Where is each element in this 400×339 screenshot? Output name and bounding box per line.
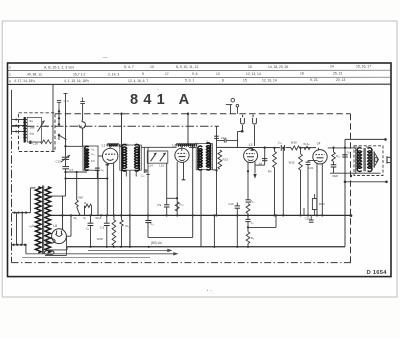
svg-text:L6: L6	[259, 162, 263, 166]
svg-text:24: 24	[330, 65, 334, 69]
svg-text:C21: C21	[308, 166, 314, 170]
capacitor C3 branch (x=90.5)	[86, 215, 93, 246]
svg-text:5ac: 5ac	[30, 132, 35, 136]
header separator line 1	[8, 69, 392, 71]
IF2 secondary winding	[206, 143, 210, 170]
svg-text:C₆: C₆	[101, 168, 104, 172]
resistor R13	[218, 150, 228, 169]
IF1 bottom stubs	[126, 170, 136, 176]
stub x=304	[303, 208, 305, 215]
IF2 primary winding	[198, 146, 202, 170]
valve L2 (IF tube)	[172, 144, 189, 163]
wave-change switch contacts	[58, 108, 67, 140]
IF2 box bottom link to x=216.5	[213, 169, 218, 171]
svg-text:R₀₁: R₀₁	[180, 203, 184, 207]
svg-text:8, 9, 10, 11, 12: 8, 9, 10, 11, 12	[176, 65, 198, 69]
capacitor on HT rail C30	[342, 146, 350, 157]
mains terminal strip	[12, 244, 27, 246]
wire y=173.2	[330, 172, 381, 174]
aerial panel dashed box	[19, 113, 56, 152]
mains wires	[17, 213, 26, 254]
svg-text:12, 4, 16, 6, 7: 12, 4, 16, 6, 7	[128, 79, 148, 83]
valve L2 legs	[177, 162, 185, 216]
capacitor C6	[95, 168, 104, 179]
svg-text:(50) c/s: (50) c/s	[151, 241, 162, 245]
scan smudges	[103, 58, 212, 292]
grid wire L5 to valve	[98, 155, 103, 157]
output transformer core	[364, 148, 365, 171]
power transformer primary lead	[30, 188, 35, 213]
svg-text:W16: W16	[95, 216, 101, 220]
svg-text:D 1654: D 1654	[367, 270, 388, 276]
resistor W18 (series zigzag)	[291, 141, 300, 150]
wire x=283	[282, 147, 284, 216]
branch x=214.4	[213, 215, 215, 246]
IF1 top lead (x=121.5)	[120, 113, 123, 216]
wire L5 box to HT bus	[97, 170, 99, 215]
rectifier valve L8	[52, 224, 67, 244]
capacitor C15a (series)	[278, 140, 285, 150]
mains frequency arrow 2	[26, 252, 179, 255]
resistor W16 (x=113.9)	[95, 215, 115, 245]
svg-text:R: R	[9, 79, 11, 83]
capacitor C16 branch (x=237.3)	[228, 202, 240, 247]
svg-text:18: 18	[300, 72, 304, 76]
bus feed junction dot	[70, 214, 72, 216]
svg-text:W₁: W₁	[74, 216, 78, 220]
rectifier heater winding 2	[44, 250, 54, 255]
svg-text:C₃: C₃	[86, 227, 89, 231]
power transformer core	[43, 186, 44, 255]
svg-text:10: 10	[216, 72, 220, 76]
capacitor C4	[145, 215, 154, 237]
svg-text:R₁: R₁	[83, 216, 86, 220]
valve L3 (detector)	[244, 143, 258, 163]
valve L4 legs	[317, 164, 322, 216]
svg-text:1e: 1e	[32, 223, 36, 227]
header separator line 2	[8, 76, 392, 78]
svg-text:5: 5	[142, 72, 144, 76]
svg-text:1/3: 1/3	[91, 159, 95, 163]
rectifier output wire	[66, 215, 71, 236]
svg-text:49, 84, 11: 49, 84, 11	[27, 73, 42, 77]
resistor R10 (L2 cathode)	[175, 202, 183, 211]
svg-text:4, 17, 14, 18¼: 4, 17, 14, 18¼	[14, 79, 35, 83]
svg-text:W15: W15	[289, 160, 295, 164]
svg-text:15,7 1-2: 15,7 1-2	[73, 72, 86, 76]
capacitor C7	[62, 167, 73, 173]
capacitor C18	[29, 141, 38, 146]
svg-text:12, 13, 14: 12, 13, 14	[246, 72, 261, 76]
long vertical with C17 (x=216.5)	[214, 126, 226, 215]
trimmer box C14/C15a	[147, 151, 168, 167]
svg-text:15, 16, 17: 15, 16, 17	[356, 65, 371, 69]
svg-text:S8: S8	[366, 145, 370, 149]
IF transformer 1 box	[120, 145, 142, 170]
svg-text:S: S	[9, 66, 11, 70]
svg-text:R₁₁: R₁₁	[336, 154, 340, 158]
mains aerial coupling coil (pigtail)	[79, 118, 85, 128]
grid leak hook with C	[255, 146, 267, 165]
pick-up wiring	[238, 130, 244, 148]
svg-text:¼ ¼: ¼ ¼	[64, 99, 70, 103]
detector load chain below bus (x=248)	[245, 215, 254, 246]
grid coil L2 (horizontal squiggle)	[176, 144, 197, 147]
resistor W18a branch (x=121.5)	[97, 215, 123, 246]
resistor R2 (pi over bus)	[84, 201, 92, 215]
loudspeaker	[374, 152, 378, 168]
power transformer primary winding	[35, 187, 41, 253]
capacitor C13 and resistor R15 (L3 cathode chain)	[245, 199, 254, 215]
anode wire to output transformer	[328, 148, 356, 173]
grid stopper T.A.	[303, 142, 310, 150]
IF1 bottom lead (x=129.9)	[129, 170, 131, 247]
earth bus (y=246.8)	[67, 246, 345, 248]
bus junction dots	[89, 214, 323, 216]
valve L3 grid lead	[251, 147, 254, 150]
svg-text:C15: C15	[56, 160, 62, 164]
resistor-capacitor tone branch W20/C11	[331, 146, 340, 178]
svg-text:15: 15	[248, 65, 252, 69]
trimmer box left lead to bus	[146, 147, 150, 215]
svg-text:W8: W8	[78, 196, 83, 200]
IF1 secondary winding	[135, 144, 140, 171]
valve L4 (output tube)	[313, 141, 327, 164]
svg-text:W28: W28	[355, 145, 361, 149]
svg-text:¼₁: ¼₁	[91, 152, 94, 156]
svg-text:W20: W20	[332, 174, 338, 178]
IF1 primary winding	[122, 144, 127, 171]
wire y=146.3 into L5	[66, 145, 84, 147]
svg-text:25, 21: 25, 21	[333, 72, 343, 76]
output transformer secondary winding	[368, 148, 372, 172]
capacitor C2 (top small)	[57, 99, 70, 108]
earth bus junction dots	[89, 246, 249, 248]
capacitor C21	[306, 161, 317, 216]
rectifier heater winding 1	[46, 239, 56, 244]
svg-text:17: 17	[165, 72, 169, 76]
svg-text:C9: C9	[157, 203, 161, 207]
AVC branch with capacitor C9	[157, 163, 169, 215]
svg-text:W22: W22	[319, 202, 325, 206]
valve L2 top cap wire	[182, 113, 189, 151]
power transformer secondary winding	[45, 187, 51, 253]
svg-text:C₁₁: C₁₁	[347, 150, 351, 154]
stage wire y=147.3	[141, 146, 176, 148]
schematic sheet frame	[8, 63, 392, 277]
variable capacitor C15	[56, 155, 71, 166]
svg-text:W₁: W₁	[125, 224, 129, 228]
wire x=82.6 to chassis cap	[82, 128, 84, 146]
svg-text:W18: W18	[97, 237, 103, 241]
grid coil L1 (horizontal squiggle)	[102, 144, 122, 148]
jack terminals right edge	[387, 156, 391, 163]
thin line y=257.3	[22, 256, 150, 258]
svg-text:2, 14, 3: 2, 14, 3	[108, 72, 119, 76]
capacitor C26	[305, 215, 314, 222]
svg-text:5a: 5a	[30, 119, 34, 123]
dash-dot chassis left border	[11, 126, 13, 262]
coupling wire y=147.6	[217, 146, 317, 148]
svg-text:L1: L1	[102, 144, 106, 148]
voltage selector strip	[12, 211, 31, 213]
svg-text:C26: C26	[305, 217, 311, 221]
svg-text:10: 10	[150, 65, 154, 69]
feedback stub wire y=227.4	[248, 215, 276, 227]
svg-text:L8: L8	[53, 224, 57, 228]
valve L1 (first tube)	[103, 146, 118, 163]
dashed shield line top (y=114)	[55, 113, 351, 115]
aerial terminal stubs	[12, 119, 25, 133]
aerial trimmer arrow S1	[38, 121, 49, 132]
IF transformer 2 box	[196, 144, 212, 170]
HT rail x=345	[344, 139, 346, 246]
HT wire y=139.4	[345, 138, 387, 141]
svg-text:9, 23,: 9, 23,	[310, 78, 318, 82]
svg-text:20, 13: 20, 13	[336, 78, 345, 82]
mains frequency arrow 1	[88, 249, 173, 252]
svg-text:C₁: C₁	[45, 124, 48, 128]
dashed chassis right border	[350, 114, 352, 263]
output transformer dashed box	[354, 146, 383, 176]
capacitor C10	[141, 147, 148, 177]
svg-text:15: 15	[243, 79, 247, 83]
svg-text:5, 9, 1: 5, 9, 1	[185, 79, 194, 83]
feedback wire y=181.8	[344, 181, 388, 184]
svg-text:W18: W18	[291, 141, 297, 145]
wire y=237.4 step	[148, 236, 193, 238]
header row 2 values	[9, 72, 343, 77]
branch x=129.9	[125, 215, 130, 246]
resistor W15	[289, 147, 303, 216]
header bottom line	[8, 83, 392, 85]
HT bus (y=215.4)	[50, 214, 352, 217]
output transformer primary winding	[357, 148, 361, 172]
aerial terminal circle	[226, 98, 235, 113]
valve L3 legs	[247, 162, 257, 200]
svg-text:R4: R4	[268, 170, 272, 174]
capacitor C17a stub	[217, 138, 238, 142]
svg-text:8: 8	[222, 79, 224, 83]
svg-text:R13: R13	[223, 157, 229, 161]
oscillator section wire (x=65.5)	[64, 93, 68, 157]
svg-text:½₅: ½₅	[195, 142, 198, 146]
svg-text:C16: C16	[228, 202, 234, 206]
wire from terminal strip down (x=53)	[52, 84, 54, 151]
svg-text:R₁₅: R₁₅	[250, 199, 254, 203]
dash-dot gang line (y=126)	[12, 125, 220, 127]
pick-up socket hooks right pair	[253, 118, 257, 146]
header row 1 values	[9, 65, 371, 70]
svg-text:A, B, 26 1, 2, 3 ¾½: A, B, 26 1, 2, 3 ¾½	[44, 66, 74, 70]
svg-text:5ab: 5ab	[30, 125, 35, 129]
HT secondary top lead	[47, 196, 65, 230]
cathode return wire y=178.5	[64, 177, 108, 179]
header row 3 values	[9, 78, 345, 83]
svg-text:14, 18, 20, 26: 14, 18, 20, 26	[268, 65, 288, 69]
socket label ticks	[243, 115, 253, 117]
transformer labels	[355, 145, 369, 149]
IF2 bottom lead x=201	[200, 170, 202, 247]
svg-text:L15: L15	[159, 163, 164, 167]
svg-text:9, 6: 9, 6	[192, 72, 198, 76]
resistor W22	[312, 194, 325, 215]
resistor R4	[268, 147, 277, 216]
earth terminal circle	[236, 104, 239, 114]
valve L1 legs	[106, 163, 114, 215]
svg-text:C₂₀: C₂₀	[141, 174, 145, 178]
aerial panel inner box	[27, 118, 41, 143]
svg-text:C18: C18	[33, 141, 39, 145]
svg-text:R₂: R₂	[84, 201, 87, 205]
resistor W17 (horizontal zigzag)	[41, 140, 52, 144]
svg-text:4, 1, 15, 16, 18½: 4, 1, 15, 16, 18½	[64, 79, 89, 83]
coil box L5	[83, 146, 98, 170]
grid return wire y=198.3	[167, 197, 178, 199]
svg-text:W.Aₓ: W.Aₓ	[303, 142, 309, 146]
svg-text:L14: L14	[148, 163, 153, 167]
heater wires	[45, 236, 67, 255]
svg-text:L₆: L₆	[251, 220, 254, 224]
aerial lead wire	[11, 90, 13, 132]
earth bus left end	[66, 247, 68, 250]
svg-text:L3: L3	[249, 143, 253, 147]
svg-text:5, 4, 7: 5, 4, 7	[124, 65, 134, 69]
pick-up socket hooks left pair	[241, 118, 245, 132]
IF2 feed wire and lead x=192.7	[189, 146, 196, 237]
svg-text:12, 19, 14: 12, 19, 14	[262, 78, 277, 82]
chassis junction dot on dashed border	[350, 175, 352, 177]
labels under bus	[74, 216, 87, 220]
svg-text:841 A: 841 A	[130, 92, 194, 108]
svg-text:C.5: C.5	[100, 225, 105, 229]
dashed chassis bottom border	[12, 262, 352, 264]
resistor W8 branch	[75, 171, 83, 216]
capacitor C1 (top of mains aerial)	[80, 98, 85, 119]
capacitor C5 branch (x=106.8)	[100, 215, 110, 246]
svg-text:R₆: R₆	[251, 236, 254, 240]
svg-text:L4: L4	[317, 141, 321, 145]
aerial panel tap labels	[30, 119, 35, 135]
valve L4 grid lead	[317, 148, 319, 151]
svg-text:C: C	[9, 73, 11, 77]
svg-text:½₀: ½₀	[126, 142, 129, 146]
IF2 labels	[195, 140, 208, 146]
aerial selector comb	[23, 117, 27, 143]
node: osc junction wire	[64, 171, 87, 196]
